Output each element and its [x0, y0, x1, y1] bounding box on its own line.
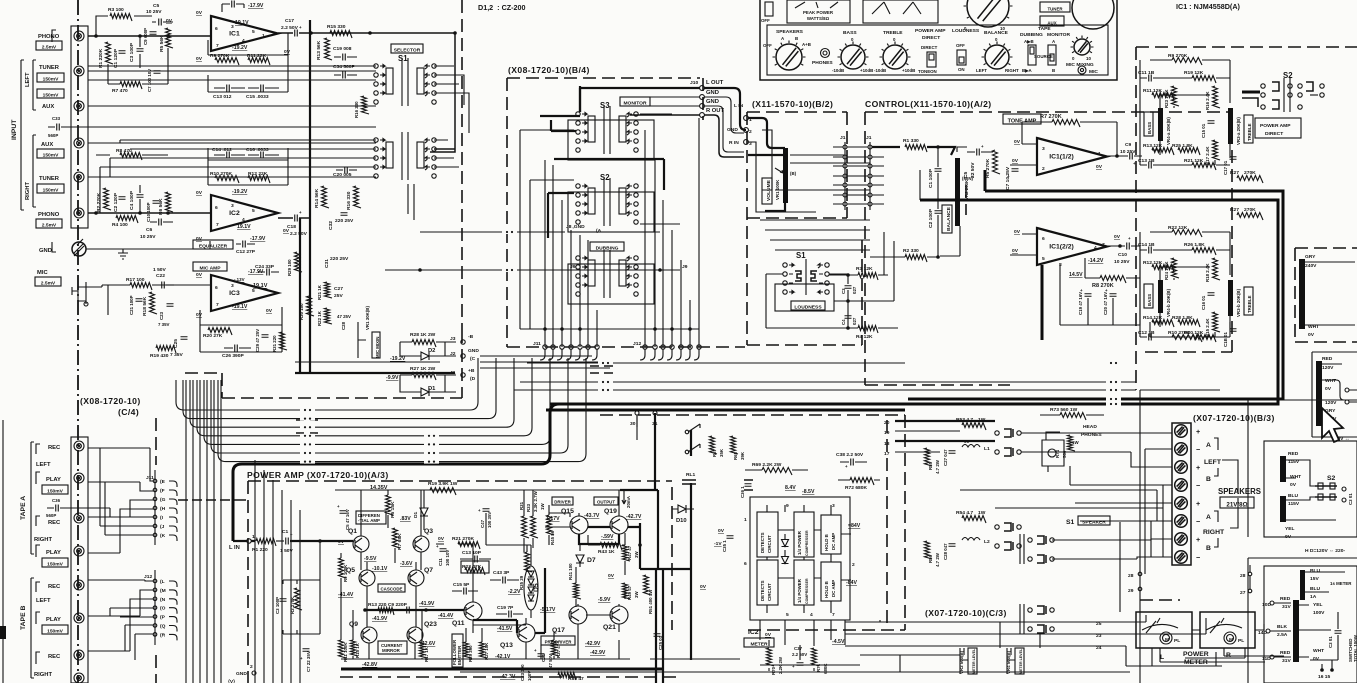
terminal screw 8	[1175, 551, 1188, 564]
svg-text:0V: 0V	[1285, 534, 1292, 540]
svg-text:C25: C25	[173, 339, 179, 348]
svg-text:C5: C5	[963, 171, 969, 178]
svg-text:-84V: -84V	[846, 580, 857, 586]
svg-text:-42.9V: -42.9V	[590, 650, 606, 656]
monitor thick wires2	[548, 193, 574, 238]
svg-text:LOUDNESS: LOUDNESS	[952, 28, 980, 34]
svg-text:6: 6	[1042, 236, 1045, 242]
svg-text:+: +	[1196, 427, 1200, 436]
PSU sec wires	[1270, 603, 1332, 670]
svg-text:10D: 10D	[1262, 602, 1271, 608]
svg-text:C2 120P: C2 120P	[113, 192, 119, 212]
jack tuner_r	[74, 172, 84, 182]
pot VR3-b 20K(B) R	[1228, 280, 1233, 316]
pot VR4-a 20K(B) L	[1158, 108, 1163, 141]
svg-text:C26 390P: C26 390P	[222, 353, 244, 359]
svg-text:R16 330: R16 330	[346, 191, 352, 210]
svg-text:0V: 0V	[1014, 139, 1021, 145]
svg-text:1/4 POWER: 1/4 POWER	[797, 578, 802, 603]
svg-text:-14.2V: -14.2V	[1088, 258, 1104, 264]
gnd jack	[72, 242, 86, 256]
pre driver label	[541, 636, 575, 645]
svg-text:R17 100: R17 100	[126, 277, 145, 283]
svg-text:-4.5V: -4.5V	[832, 639, 845, 645]
svg-text:L IN: L IN	[734, 103, 744, 109]
svg-text:J3: J3	[450, 336, 456, 342]
svg-text:(H: (H	[160, 506, 166, 512]
thick vertical x300	[299, 218, 301, 373]
svg-text:−: −	[1196, 517, 1200, 526]
svg-text:0V: 0V	[338, 539, 345, 545]
op-amp IC3	[211, 275, 278, 311]
loudness jumper wires	[760, 155, 870, 250]
monitor label	[620, 97, 650, 106]
svg-text:C13 012: C13 012	[213, 94, 232, 100]
svg-text:TREBLE: TREBLE	[1247, 123, 1252, 141]
meter bottom wires	[860, 620, 1284, 674]
svg-text:R41 100: R41 100	[568, 563, 573, 580]
svg-text:C36: C36	[52, 498, 61, 503]
svg-text:7: 7	[216, 222, 219, 228]
svg-text:R IN: R IN	[729, 140, 739, 146]
svg-text:7 35V: 7 35V	[170, 352, 184, 358]
svg-text:(D: (D	[470, 376, 476, 382]
bus connector horizontals	[480, 356, 610, 368]
svg-text:3: 3	[832, 503, 835, 509]
svg-text:3: 3	[231, 203, 234, 209]
svg-text:+: +	[299, 25, 302, 30]
S1 wires from inputs	[62, 66, 376, 177]
svg-text:C35 1: C35 1	[722, 540, 727, 552]
svg-text:120V: 120V	[1322, 365, 1334, 371]
tape jack rec_b_r	[74, 650, 84, 660]
diode string D5	[524, 566, 538, 610]
svg-text:(G: (G	[160, 497, 166, 503]
switch S1 speaker bank B	[1028, 608, 1032, 612]
svg-text:TAPE B: TAPE B	[20, 605, 27, 630]
svg-text:(B): (B)	[790, 171, 797, 176]
svg-text:PLAY: PLAY	[46, 477, 61, 483]
volume wires	[748, 118, 785, 211]
tape bus verticals	[255, 460, 300, 683]
feedback box IC2	[208, 148, 288, 185]
svg-text:R10 270K: R10 270K	[210, 171, 232, 177]
svg-text:150mV: 150mV	[43, 187, 60, 193]
svg-text:TUNER: TUNER	[39, 176, 60, 182]
svg-text:C3 01: C3 01	[1348, 493, 1353, 505]
tape jack rec_a_r	[74, 513, 84, 523]
svg-text:HOLD B: HOLD B	[824, 534, 829, 551]
speaker relay contacts L	[995, 431, 999, 435]
svg-text:PRE DRIVER: PRE DRIVER	[545, 639, 573, 644]
svg-text:R23 1.8K: R23 1.8K	[1164, 89, 1169, 108]
svg-text:-5.17V: -5.17V	[540, 607, 556, 613]
svg-text:100 10V: 100 10V	[445, 550, 450, 566]
power amp A/3 dashed box	[248, 481, 680, 683]
svg-text:(C: (C	[470, 356, 476, 362]
svg-text:-19.1V: -19.1V	[232, 304, 248, 310]
svg-text:A: A	[1206, 442, 1211, 449]
svg-text:270K: 270K	[1244, 170, 1256, 176]
svg-text:-.13V: -.13V	[234, 277, 245, 282]
svg-text:120V: 120V	[1325, 400, 1337, 406]
svg-text:(P: (P	[160, 615, 166, 621]
ctrl bottom wires	[1060, 265, 1140, 325]
feedback box IC1	[208, 33, 288, 92]
svg-text:+: +	[1196, 535, 1200, 544]
tape jack play_a_l	[74, 473, 84, 483]
differential amp label	[356, 511, 386, 524]
svg-text:C14 .012: C14 .012	[212, 147, 232, 153]
svg-text:YEL: YEL	[1285, 526, 1295, 532]
svg-text:31V: 31V	[1282, 658, 1291, 664]
svg-text:C2 100P: C2 100P	[928, 208, 934, 228]
svg-text:0V: 0V	[608, 573, 615, 579]
svg-text:Q9: Q9	[349, 621, 358, 628]
svg-text:C3 01: C3 01	[1328, 636, 1333, 648]
cap C14 1B R	[1149, 247, 1152, 254]
resistor R14 12K R	[1152, 320, 1174, 328]
svg-text:4: 4	[810, 612, 813, 618]
svg-text:R10 270K: R10 270K	[1168, 330, 1190, 336]
resistor R11 12K L	[1152, 93, 1174, 101]
svg-text:POWER AMP: POWER AMP	[1260, 123, 1291, 129]
svg-text:10 25V: 10 25V	[146, 9, 162, 15]
svg-text:027: 027	[852, 317, 857, 325]
hold dc amp box 1	[821, 515, 841, 554]
svg-text:C17: C17	[285, 18, 294, 24]
svg-text:1: 1	[262, 33, 265, 39]
PA bottom rail	[341, 658, 630, 660]
svg-text:R27: R27	[1230, 170, 1239, 176]
svg-text:2.2 50V: 2.2 50V	[290, 231, 308, 237]
svg-text:MIC AMP: MIC AMP	[199, 265, 221, 271]
svg-text:(F: (F	[160, 488, 165, 494]
page edge line	[2, 420, 4, 683]
speaker relay L1 block	[962, 423, 986, 431]
svg-text:S2: S2	[1327, 475, 1336, 482]
resistor R23 47K	[465, 568, 485, 576]
svg-text:28: 28	[1240, 573, 1246, 579]
svg-text:CASCODE: CASCODE	[381, 586, 403, 591]
svg-text:R21 12K: R21 12K	[1184, 158, 1204, 164]
svg-text:(X08-1720-10): (X08-1720-10)	[80, 396, 141, 406]
PSU secondary box	[1264, 566, 1357, 683]
svg-text:C5 47 16V: C5 47 16V	[345, 509, 350, 530]
svg-text:R18 56K: R18 56K	[142, 296, 148, 316]
speaker relay contacts R	[995, 525, 999, 529]
svg-text:S1: S1	[796, 251, 806, 260]
svg-text:IC1: IC1	[229, 31, 240, 38]
svg-text:5: 5	[786, 612, 789, 618]
svg-text:VR1 30K(B): VR1 30K(B)	[365, 306, 370, 330]
svg-text:OFF: OFF	[956, 43, 965, 48]
J10 thick wires R	[630, 115, 744, 157]
svg-text:RIGHT: RIGHT	[34, 672, 52, 678]
cap C14 012	[227, 152, 230, 159]
svg-text:C27: C27	[334, 286, 343, 292]
svg-text:1 50V: 1 50V	[153, 267, 167, 273]
J10 thick wires L	[580, 88, 700, 112]
svg-text:C10: C10	[1118, 252, 1127, 258]
svg-text:R27: R27	[1230, 207, 1239, 213]
svg-text:19.1V: 19.1V	[253, 283, 268, 289]
svg-text:R4 12K: R4 12K	[856, 334, 873, 340]
tone net wires R	[1140, 232, 1230, 337]
meter wires	[845, 615, 1245, 666]
svg-text:100V: 100V	[1313, 610, 1325, 616]
svg-text:R19 430: R19 430	[150, 353, 169, 359]
svg-text:J10: J10	[690, 80, 698, 86]
svg-text:R11 22K: R11 22K	[247, 53, 267, 59]
svg-text:1W: 1W	[978, 417, 986, 423]
svg-text:IC3: IC3	[229, 290, 240, 297]
crossing marks mid	[296, 110, 420, 433]
svg-text:R30 100: R30 100	[299, 303, 304, 320]
resistor R13 12K L	[1152, 148, 1174, 156]
resistor R9 270K	[215, 58, 239, 66]
svg-text:2.2 50V: 2.2 50V	[281, 25, 299, 31]
svg-text:150mV: 150mV	[43, 152, 60, 158]
svg-text:240V: 240V	[1305, 263, 1317, 269]
svg-text:REC: REC	[48, 445, 61, 451]
tape wires A	[68, 448, 153, 553]
svg-text:-41.4V: -41.4V	[438, 613, 454, 619]
svg-text:Q7: Q7	[424, 567, 433, 574]
svg-text:B: B	[1052, 68, 1055, 73]
resistor R8 470	[120, 153, 142, 161]
PSU primary wires	[1286, 460, 1336, 520]
svg-text:−: −	[1196, 553, 1200, 562]
svg-text:Q13: Q13	[500, 642, 513, 649]
cap C16 0033	[261, 152, 264, 159]
20mA annotation	[622, 490, 626, 504]
power compressor box 2	[794, 560, 814, 605]
svg-text:TONEON: TONEON	[918, 69, 937, 74]
svg-text:C12 27P: C12 27P	[236, 249, 256, 255]
svg-text:IC1(1/2): IC1(1/2)	[1049, 154, 1074, 161]
svg-text:Q15: Q15	[561, 508, 574, 515]
svg-text:(E: (E	[160, 479, 166, 485]
svg-text:R4 100: R4 100	[112, 222, 128, 228]
svg-text:115V: 115V	[1288, 501, 1300, 507]
svg-text:+: +	[436, 544, 439, 549]
svg-text:+: +	[1105, 288, 1108, 293]
cap C15 5P	[464, 588, 467, 595]
resistor R69 2.2K 2W	[762, 468, 792, 476]
svg-text:R7 270K: R7 270K	[1040, 114, 1062, 120]
svg-text:C13 10P: C13 10P	[462, 550, 482, 556]
bus thin y382	[520, 381, 1136, 383]
svg-text:0V: 0V	[196, 190, 203, 196]
svg-text:7: 7	[1102, 242, 1105, 248]
terminal screw 6	[1175, 515, 1188, 528]
resistor R7 270K	[1052, 120, 1080, 128]
svg-text:R12 22K: R12 22K	[248, 171, 268, 177]
svg-text:R OUT: R OUT	[706, 108, 724, 114]
svg-text:2: 2	[749, 129, 752, 135]
crossing marks verticals	[178, 499, 246, 501]
tone amp label	[1003, 114, 1041, 124]
svg-text:C10 100P: C10 100P	[146, 202, 151, 222]
svg-text:BASS: BASS	[1147, 294, 1152, 306]
PA input pin 1	[247, 539, 251, 543]
svg-text:5: 5	[252, 208, 255, 214]
svg-text:COMPRESSER: COMPRESSER	[805, 578, 809, 604]
meter label box	[744, 638, 774, 647]
selector label	[391, 44, 423, 53]
thin rail y200	[920, 170, 1278, 404]
svg-text:REC: REC	[48, 520, 61, 526]
svg-text:C3 100P: C3 100P	[275, 597, 280, 614]
svg-text:MIRROR: MIRROR	[382, 648, 401, 653]
svg-text:LOUDNESS: LOUDNESS	[794, 304, 822, 310]
svg-text:18: 18	[884, 441, 890, 447]
svg-text:R21 1K: R21 1K	[317, 284, 322, 300]
svg-text:R9 270K: R9 270K	[1168, 53, 1188, 59]
svg-text:R39 47: R39 47	[568, 676, 584, 682]
svg-text:C19 008: C19 008	[333, 46, 352, 52]
svg-text:AUX: AUX	[42, 104, 54, 110]
svg-text:CONTROL(X11-1570-10)(A/2): CONTROL(X11-1570-10)(A/2)	[865, 99, 992, 109]
svg-text:PL: PL	[1238, 638, 1244, 644]
svg-text:-9.5V: -9.5V	[364, 556, 377, 562]
svg-text:J12: J12	[633, 341, 641, 347]
tape jack strip	[71, 437, 88, 683]
svg-text:1: 1	[1098, 151, 1101, 157]
svg-text:27: 27	[1240, 590, 1246, 596]
svg-text:31V: 31V	[1282, 604, 1291, 610]
svg-text:C15 5P: C15 5P	[453, 582, 470, 588]
svg-text:C28: C28	[341, 321, 346, 330]
svg-text:-9.9V: -9.9V	[386, 375, 399, 381]
svg-text:TUNER: TUNER	[1047, 6, 1063, 11]
svg-text:20: 20	[884, 420, 890, 426]
pot VR4-b 20K(B) R	[1158, 280, 1163, 313]
svg-text:S1: S1	[1066, 519, 1075, 526]
svg-text:R22 1K: R22 1K	[317, 310, 322, 326]
board C/4 dashed edges	[155, 418, 157, 683]
speaker wires to terminals	[960, 433, 1172, 559]
svg-text:7 35V: 7 35V	[158, 322, 170, 327]
thick rail y191	[985, 170, 1283, 400]
svg-text:10 25V: 10 25V	[1114, 259, 1130, 265]
svg-text:4.7 2W: 4.7 2W	[935, 459, 940, 474]
svg-text:(Q: (Q	[160, 624, 166, 630]
treble label R	[1244, 287, 1253, 315]
svg-text:19.1V: 19.1V	[237, 224, 251, 230]
svg-text:L IN: L IN	[229, 545, 240, 551]
svg-text:R13 220 C9 220P: R13 220 C9 220P	[368, 602, 408, 608]
svg-text:WHT: WHT	[1325, 378, 1336, 384]
headphone resistor R73 560 1W	[1060, 413, 1086, 421]
svg-text:WATTS/8Ω: WATTS/8Ω	[807, 16, 830, 21]
svg-text:-8.5V: -8.5V	[802, 489, 815, 495]
gnd wire	[86, 241, 210, 249]
tape jack play_b_r	[74, 673, 84, 683]
cap C17 sym	[295, 30, 298, 37]
resistor R21 12K L	[1192, 163, 1216, 171]
svg-text:S2: S2	[600, 173, 610, 182]
board A/2 dashed box	[865, 112, 1232, 385]
svg-text:+: +	[1133, 161, 1136, 166]
resistor R19 3.9K 1W	[430, 488, 456, 496]
resistor R43 1K	[600, 543, 622, 551]
resistor R11 22K	[248, 58, 270, 66]
power amp direct label	[1255, 118, 1301, 138]
svg-text:4: 4	[242, 38, 245, 44]
resistor R26 1.8K R	[1192, 248, 1216, 256]
front panel control row box	[767, 25, 1108, 75]
svg-text:0V: 0V	[1114, 234, 1121, 240]
svg-text:OUTPUT: OUTPUT	[597, 499, 615, 504]
resistor R20 27K	[208, 328, 232, 336]
svg-text:MIC: MIC	[37, 270, 48, 276]
svg-text:R28 1K 2W: R28 1K 2W	[410, 332, 436, 338]
wire y210	[938, 210, 960, 256]
PA thick input wire	[290, 540, 353, 542]
svg-text:7: 7	[216, 302, 219, 308]
svg-text:C36 1: C36 1	[740, 486, 745, 498]
svg-text:R18 2.4K: R18 2.4K	[1205, 263, 1210, 282]
svg-text:150mV: 150mV	[43, 76, 60, 82]
thick vertical x455	[430, 33, 455, 152]
cap C26 390P	[235, 345, 238, 352]
svg-text:14.35V: 14.35V	[370, 485, 388, 491]
svg-text:R5 15K: R5 15K	[390, 501, 396, 518]
svg-text:POWER: POWER	[1183, 651, 1209, 658]
svg-text:-41.9V: -41.9V	[419, 601, 435, 607]
switch S1 bank lower	[374, 138, 378, 142]
svg-text:R31: R31	[519, 501, 524, 510]
svg-text:REC: REC	[48, 654, 61, 660]
svg-text:2: 2	[852, 562, 855, 568]
svg-text:S3: S3	[600, 101, 610, 110]
svg-text:R45 56: R45 56	[550, 530, 555, 545]
hold dc amp box 2	[821, 562, 841, 601]
svg-text:R1 220K: R1 220K	[98, 48, 104, 68]
svg-text:+: +	[1196, 463, 1200, 472]
switch S3 bank	[576, 112, 580, 116]
power meter R box	[1200, 612, 1255, 648]
connector letters L-R	[153, 579, 157, 583]
PA thick output stage	[579, 413, 676, 683]
svg-text:0V: 0V	[196, 56, 203, 62]
resistor R19 430	[156, 346, 176, 354]
svg-text:LEFT: LEFT	[1204, 459, 1222, 466]
board B/4 dashed box	[507, 78, 745, 347]
svg-text:C43 3P: C43 3P	[493, 570, 510, 576]
svg-text:R2 330: R2 330	[903, 248, 919, 254]
svg-text:R33: R33	[526, 503, 531, 512]
board B/2 dashed box	[747, 112, 862, 345]
svg-text:RED: RED	[1288, 451, 1299, 457]
svg-text:150mV: 150mV	[47, 561, 64, 567]
svg-text:C21 100P: C21 100P	[129, 295, 134, 315]
svg-text:+: +	[478, 508, 481, 513]
svg-text:+: +	[845, 464, 848, 469]
volume pot VR1	[783, 148, 788, 203]
svg-text:3W: 3W	[634, 591, 639, 598]
svg-text:R23 47K: R23 47K	[462, 564, 482, 570]
svg-text:L: L	[1160, 654, 1164, 661]
front panel outline	[760, 0, 1117, 80]
bass label L	[1144, 112, 1153, 136]
svg-text:.83V: .83V	[400, 516, 411, 522]
detects circuit box 2	[757, 560, 778, 605]
svg-text:+: +	[1128, 236, 1131, 241]
bus thin y363	[527, 362, 905, 364]
